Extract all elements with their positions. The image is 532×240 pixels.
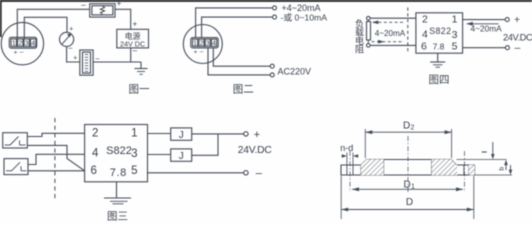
battery plates [85,55,88,72]
svg-text:4: 4 [212,41,216,48]
supply + terminal [505,18,509,22]
center line [407,136,409,193]
switch SW2 box [4,159,28,175]
wire pin5 to minus [463,47,506,49]
svg-text:–: – [133,46,138,55]
left hole centerline [349,151,351,192]
wire SW2 bottom to pin6 [28,170,85,172]
svg-text:2: 2 [411,125,415,132]
wire battery to ground junction [93,61,141,63]
svg-text:S822: S822 [106,145,132,157]
terminal 4 [31,39,36,47]
right bolt hole [463,165,465,175]
resistor bottom terminal [367,44,371,48]
svg-text:1: 1 [411,183,415,190]
thickness up arrow [505,165,507,171]
vertical label 负载电阻 [355,18,364,55]
svg-text:7.8: 7.8 [110,167,127,179]
- terminal [244,171,248,175]
svg-text:-或 0~10mA: -或 0~10mA [281,12,328,23]
svg-text:2: 2 [199,41,203,48]
svg-text:24V.DC: 24V.DC [503,32,532,42]
ground below box [437,53,439,62]
scan edge left bar [0,0,2,37]
terminal block [191,38,218,48]
svg-text:1: 1 [12,39,16,48]
S822 box [85,125,148,182]
n-d arrows [342,154,347,157]
svg-text:图二: 图二 [233,84,254,96]
D extension lines [340,176,342,219]
svg-text:图一: 图一 [129,84,150,96]
svg-text:4: 4 [92,148,99,160]
battery outer box [80,50,93,75]
svg-text:–: – [256,168,263,180]
AC terminal circle [270,73,274,77]
ammeter circle [60,32,74,46]
terminal block [9,37,36,48]
wire SW1 bottom diagonal to pin6 [27,145,84,170]
right small hatch [469,165,475,175]
svg-text:+: + [69,26,73,33]
svg-text:4~20mA: 4~20mA [375,29,406,38]
current loop dashed top with left arrow [373,21,404,23]
resistor top terminal [367,16,371,20]
terminal 1 [11,39,16,47]
wire J2 joining + wire [192,134,218,155]
wire terminal1 riser to top [17,9,89,38]
svg-text:3: 3 [25,39,29,48]
wire resistor to supply [115,9,131,29]
svg-text:3: 3 [452,29,458,41]
terminal 1 [193,39,198,46]
svg-text:–: – [20,49,24,56]
small tick label [482,151,487,153]
+ terminal [244,132,248,136]
n-d extension lines [346,153,348,166]
svg-text:3: 3 [206,41,210,48]
svg-text:b: b [499,167,506,171]
svg-text:+4~20mA: +4~20mA [282,3,321,13]
right hole centerline [464,151,466,192]
svg-text:阻: 阻 [355,45,364,55]
svg-text:6: 6 [91,165,97,177]
svg-text:J: J [179,151,184,162]
svg-text:2: 2 [422,14,428,26]
scan edge top bar [0,0,532,2]
wire SW2 top to pin4 [28,154,85,164]
resistor box inner [92,6,113,15]
output terminal circle [273,15,277,19]
svg-text:n-d: n-d [340,143,353,153]
wire J1 to + terminal [192,133,244,135]
D dimension line [341,209,474,211]
upper pointer arrow [492,142,494,155]
output terminal circle [273,6,277,10]
thickness down arrow [510,165,512,170]
wire pin3 to J2 [148,154,171,156]
terminal 3 [205,39,210,46]
battery inner box [83,52,91,73]
svg-text:AC220V: AC220V [278,67,312,77]
wire pin1 to plus [463,19,506,21]
bore edges [383,160,385,176]
svg-text:1: 1 [452,14,458,26]
left bolt hole [346,165,348,175]
switch SW1 box [3,133,28,148]
S822 box [416,13,463,53]
svg-text:+: + [514,14,520,26]
svg-text:5: 5 [452,41,458,53]
SW1 contact [5,144,11,146]
svg-text:1: 1 [131,128,137,140]
svg-text:D: D [406,197,413,208]
svg-text:5: 5 [131,165,137,177]
D1 dimension line [352,188,463,190]
svg-text:+: + [117,0,122,8]
terminal 2 [199,39,204,46]
svg-text:3: 3 [131,148,137,160]
svg-text:+: + [132,19,137,28]
wire top to pin2 [370,17,416,19]
svg-text:4: 4 [31,39,35,48]
hatched section right [432,160,457,176]
wire SW1 top to pin2 [27,133,84,136]
wire terminal1 to +4-20mA [196,8,273,38]
resistor box outer [90,4,115,17]
dashed separator [407,8,409,53]
svg-text:6: 6 [421,41,427,53]
wire terminal2 to meter [24,17,67,38]
svg-text:2: 2 [18,39,22,48]
wire pin5 to - terminal [148,172,244,174]
svg-text:+: + [14,50,18,57]
terminal 4 [211,39,216,46]
svg-text:2: 2 [92,128,98,140]
svg-text:+: + [73,55,77,62]
tab/chamfer separators [360,165,362,175]
transmitter body circle [183,25,222,64]
transmitter body circle [1,22,43,64]
svg-text:–: – [69,45,73,52]
svg-text:7.8: 7.8 [433,42,445,52]
wire bottom to pin6 [370,44,416,46]
svg-text:D: D [403,121,410,132]
ground below box [116,182,118,198]
wire terminal3 down [208,48,270,75]
svg-text:–: – [81,1,86,10]
svg-text:J: J [179,130,184,141]
svg-text:S822: S822 [429,26,451,36]
svg-text:–: – [515,42,521,54]
wire supply minus down [130,48,132,62]
hatched section left [361,160,384,176]
right bottom extension line [475,174,513,176]
D2 extension lines [364,129,366,158]
terminal 3 [24,39,29,47]
svg-text:+: + [254,129,260,141]
svg-text:D: D [404,179,411,190]
relay J2 [171,149,192,161]
AC terminal circle [270,64,274,68]
SW2 contact [6,170,12,172]
svg-text:24V.DC: 24V.DC [238,145,273,156]
svg-text:图四: 图四 [429,74,450,86]
power supply box [117,29,149,48]
load resistor [367,22,371,41]
svg-text:4~20mA: 4~20mA [471,23,503,33]
flange outline [341,160,475,176]
svg-text:图三: 图三 [107,211,128,223]
dashed boundary line [54,118,56,199]
wire terminal4 down [213,48,270,67]
relay J1 [171,128,192,140]
wire pin1 to J1 [148,133,171,135]
supply - terminal [505,46,509,50]
D2 dimension line [365,131,451,133]
wire meter to battery [67,47,80,63]
svg-text:+: + [194,49,198,56]
right raised-face extension line [457,159,507,161]
resistor zigzag [100,6,104,14]
current direction arrow [468,23,499,25]
ground [140,62,142,69]
terminal 2 [18,39,23,47]
current loop dashed bottom with right arrow [372,41,405,43]
svg-text:–: – [200,49,204,56]
svg-text:4: 4 [422,29,428,41]
ammeter needle [62,36,69,44]
svg-text:1: 1 [193,41,197,48]
wire terminal2 [202,17,273,38]
